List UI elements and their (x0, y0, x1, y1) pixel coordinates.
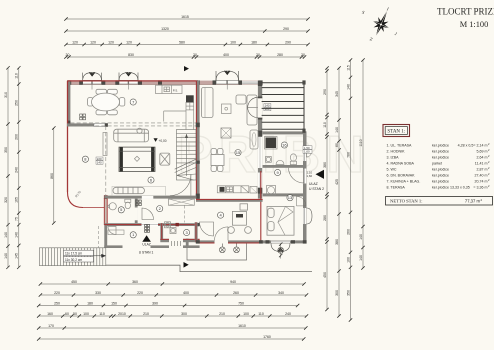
window opening W1 (83, 80, 92, 84)
svg-text:210: 210 (143, 312, 149, 316)
svg-text:100: 100 (243, 312, 249, 316)
svg-text:1320: 1320 (161, 27, 169, 31)
svg-text:1615: 1615 (181, 15, 189, 19)
red wall room3 south (160, 239, 199, 242)
opening stan2 east window (258, 173, 262, 188)
svg-text:120: 120 (126, 40, 132, 44)
svg-text:160: 160 (47, 312, 53, 316)
wall bath north (263, 131, 307, 134)
svg-text:580: 580 (179, 40, 185, 44)
room number 9 (275, 169, 281, 175)
door opening porch (169, 238, 183, 248)
wall pier pier W3 left (213, 80, 217, 84)
svg-text:165: 165 (15, 197, 19, 203)
svg-text:2,64 m: 2,64 m (477, 156, 488, 160)
svg-text:150: 150 (111, 301, 117, 305)
bed stan2 (267, 206, 294, 235)
svg-text:200: 200 (265, 107, 270, 111)
wall terrace divider (67, 123, 94, 126)
door arc room4 (199, 222, 213, 236)
dimension chain bottom row D (39, 315, 307, 317)
door opening entrance (142, 223, 159, 227)
svg-text:290: 290 (283, 27, 289, 31)
block terrace divider end (105, 123, 108, 127)
svg-text:3. IZBA: 3. IZBA (387, 156, 400, 160)
radiator stan2 (250, 130, 258, 149)
dimension chain bottom row C (39, 305, 298, 307)
svg-text:ker.pločice: ker.pločice (432, 150, 449, 154)
door arc under stairs (170, 175, 191, 196)
red wall hall left (104, 199, 107, 225)
entrance triangle stan1 (142, 235, 151, 242)
room number 13 (287, 195, 293, 201)
svg-text:830: 830 (128, 53, 134, 57)
svg-text:180: 180 (251, 40, 257, 44)
svg-text:310: 310 (4, 92, 8, 98)
svg-text:120: 120 (90, 40, 96, 44)
dining table stan1 (88, 89, 125, 115)
red boundary divider (195, 81, 197, 199)
door opening wc (135, 208, 138, 221)
marker arrow terrace (184, 262, 189, 268)
svg-text:140: 140 (359, 234, 363, 240)
wall top bottom edge (67, 83, 263, 85)
svg-text:100: 100 (346, 257, 350, 263)
terrace edge (106, 265, 312, 271)
svg-text:280: 280 (323, 215, 327, 221)
svg-text:140: 140 (15, 232, 19, 238)
svg-text:ker.pločice: ker.pločice (432, 144, 449, 148)
legend STAN 1 box (383, 125, 410, 137)
svg-text:1,60: 1,60 (304, 150, 310, 154)
wall pier pier kitchen (158, 80, 162, 84)
dashed beam line (70, 125, 196, 127)
svg-text:= 3,36 m: = 3,36 m (473, 186, 487, 190)
threshold marks entrance (145, 224, 150, 232)
entrance triangle stan2 (316, 170, 325, 179)
svg-text:16: 16 (282, 142, 287, 147)
svg-text:760: 760 (346, 152, 350, 158)
closet hall (169, 199, 195, 205)
svg-text:parket: parket (432, 162, 442, 166)
dimension chain top 1320/290 (66, 30, 308, 32)
dimension chain right chain 2 (338, 68, 340, 316)
svg-text:240: 240 (285, 312, 291, 316)
wall divider stan1-stan2 (196, 81, 200, 200)
dashed line hall (183, 206, 185, 223)
sofa stan2 (236, 95, 257, 125)
wall left exterior (67, 81, 70, 125)
wall pier pier divider top (196, 80, 200, 84)
svg-text:180: 180 (87, 301, 93, 305)
wall pier pier mid (102, 80, 106, 84)
window east bath (303, 150, 306, 161)
pergola east edge (303, 82, 305, 131)
svg-text:120: 120 (72, 40, 78, 44)
dining table stan2 (211, 149, 224, 172)
svg-text:TLOCRT PRIZEMLJA: TLOCRT PRIZEMLJA (437, 6, 494, 16)
room number 4 (218, 212, 224, 218)
svg-text:1610: 1610 (238, 324, 246, 328)
svg-text:1110: 1110 (359, 139, 363, 146)
red boundary room4 east (260, 171, 262, 243)
legend NETTO box (386, 197, 493, 206)
svg-text:ULAZ: ULAZ (309, 182, 318, 186)
svg-text:1. UL. TERASA: 1. UL. TERASA (387, 144, 413, 148)
kitchen counter stan1 (156, 85, 194, 129)
dimension chain bottom row A (40, 283, 304, 285)
svg-text:20: 20 (256, 53, 260, 57)
svg-text:ULAZ: ULAZ (142, 242, 150, 246)
svg-text:290: 290 (323, 89, 327, 95)
red wall entrance east (160, 223, 163, 239)
window terrace divider (94, 123, 105, 126)
svg-text:PRIBN: PRIBN (178, 126, 370, 184)
svg-text:400: 400 (223, 53, 229, 57)
svg-text:6. DN. BORAVAK: 6. DN. BORAVAK (387, 174, 416, 178)
svg-text:350: 350 (346, 290, 350, 296)
dishwasher stan2 (250, 187, 257, 194)
label boxes bath door (303, 146, 312, 154)
svg-text:940: 940 (230, 280, 236, 284)
svg-text:250: 250 (54, 301, 60, 305)
wall pier corner NE (259, 80, 263, 84)
svg-text:2. HODNIK: 2. HODNIK (387, 150, 406, 154)
wall south strip east2 (183, 245, 200, 248)
svg-text:1760: 1760 (263, 335, 271, 339)
east wall dark blocks (258, 81, 262, 194)
svg-text:13: 13 (288, 195, 293, 200)
svg-text:5. WC: 5. WC (387, 168, 397, 172)
door size labels 140/200 (264, 104, 271, 112)
svg-text:11x 17,5 cm: 11x 17,5 cm (65, 251, 82, 255)
svg-text:4. RADNA SOBA: 4. RADNA SOBA (387, 162, 415, 166)
dimension chain right chain 1 (326, 68, 328, 310)
svg-text:P.S.: P.S. (173, 89, 178, 93)
electric box wc (136, 200, 142, 206)
window shutters W2 (119, 73, 138, 81)
sofa stan1 top (114, 128, 149, 142)
svg-text:100: 100 (83, 312, 89, 316)
svg-text:300: 300 (335, 290, 339, 296)
wall pier pier mid2 (115, 80, 119, 84)
rug stan1 (112, 186, 166, 195)
red wall junction block (104, 195, 108, 199)
red wall room4 north (196, 199, 263, 202)
svg-text:ker.pločice: ker.pločice (432, 180, 449, 184)
svg-text:ker.pločice 13,33 x 0,35: ker.pločice 13,33 x 0,35 (432, 186, 470, 190)
dimension chain left inner (18, 68, 20, 267)
wall divider lower ext (195, 222, 198, 242)
svg-text:330: 330 (95, 291, 101, 295)
electric box symbol (80, 114, 86, 120)
svg-text:20: 20 (193, 53, 197, 57)
washer dryer room3 (165, 222, 177, 234)
pergola bars (262, 83, 304, 129)
svg-text:250: 250 (15, 100, 19, 106)
svg-text:320: 320 (4, 197, 8, 203)
room number 15 (235, 150, 241, 156)
svg-text:STAN 1:: STAN 1: (387, 130, 405, 135)
wall hall west lower (104, 226, 107, 248)
dashed wall line vertical (105, 126, 107, 196)
dimension chain right chain 4 (362, 60, 364, 268)
room number 16 (281, 142, 287, 148)
door opening living south (142, 195, 154, 199)
boiler hall9 (267, 186, 276, 196)
dimension chain left 860 (53, 128, 55, 223)
wall pier pier W2 right (138, 80, 142, 84)
wall stan2 east (258, 81, 262, 199)
shelf on open wall (103, 133, 107, 156)
fixed glazing top (242, 81, 258, 84)
svg-text:20,74 m: 20,74 m (475, 180, 488, 184)
svg-text:860: 860 (50, 173, 54, 179)
svg-text:240: 240 (15, 167, 19, 173)
dimension chain left outer (7, 68, 9, 267)
room number 2 (157, 206, 163, 212)
window shutters W1 (83, 73, 102, 81)
island table stan1 (119, 147, 155, 171)
dimension chain top windows 120s (66, 44, 308, 46)
svg-text:11x 30,2 cm: 11x 30,2 cm (65, 258, 82, 262)
window bedroom south (271, 241, 290, 243)
svg-text:NETTO STAN 1:: NETTO STAN 1: (390, 199, 422, 204)
dimension chain top 20/830/400/280 (66, 56, 305, 58)
porch outline (187, 243, 247, 260)
wall corner blocks south (196, 240, 307, 243)
svg-text:145: 145 (15, 253, 19, 259)
armchair stan1 (160, 153, 170, 165)
dimension chain top total 1615 (66, 18, 308, 20)
svg-text:210: 210 (219, 312, 225, 316)
svg-text:50: 50 (73, 312, 77, 316)
legend room rows (387, 142, 491, 189)
svg-text:110: 110 (99, 312, 105, 316)
window opening W3 (216, 80, 227, 84)
internal stairs (175, 130, 196, 181)
fireplace stan2 (221, 128, 231, 138)
svg-text:140: 140 (359, 255, 363, 261)
sideboard stan1 (113, 187, 144, 193)
bath sink toilet (266, 154, 297, 165)
marker arrow top (184, 66, 189, 71)
svg-text:140: 140 (346, 84, 350, 90)
sofa stan2 west (202, 88, 214, 118)
door arc room4 south (215, 227, 229, 241)
room number 5 (118, 207, 124, 213)
svg-text:345: 345 (335, 91, 339, 97)
level marker +0,00 (154, 138, 158, 142)
svg-text:360: 360 (132, 280, 138, 284)
svg-text:100: 100 (230, 40, 236, 44)
svg-text:115: 115 (346, 65, 350, 71)
wall pier pier W3 right (239, 80, 243, 84)
wall south strip west (104, 245, 122, 248)
porch columns room4 (219, 244, 283, 254)
red boundary arc R175 (68, 192, 84, 208)
wc fixtures room5 (107, 199, 131, 210)
room number 8 (82, 156, 88, 162)
desk room4 (228, 204, 252, 234)
svg-text:15: 15 (236, 150, 241, 155)
svg-text:5,69 m: 5,69 m (477, 150, 488, 154)
svg-text:11,41 m: 11,41 m (475, 162, 488, 166)
door arc hall9 (289, 168, 304, 183)
wall living south (104, 196, 196, 199)
svg-text:60: 60 (65, 312, 69, 316)
north compass star (366, 6, 398, 41)
window opening W2 (119, 80, 128, 84)
svg-text:280: 280 (277, 53, 283, 57)
red wall hall south east part (162, 223, 199, 226)
svg-text:450: 450 (323, 272, 327, 278)
cupboard room1 (108, 230, 124, 235)
window shutters bedroom (271, 243, 290, 251)
dimension chain right chain 3 (350, 60, 352, 320)
door size labels terrace (96, 157, 103, 165)
dimension chain bottom row E (39, 327, 306, 329)
wall south strip east (151, 245, 170, 248)
window east bedroom (303, 208, 306, 224)
svg-text:110: 110 (258, 312, 264, 316)
wall east exterior (303, 131, 307, 243)
svg-text:120: 120 (108, 40, 114, 44)
opening east hall9 entrance (303, 169, 306, 184)
red wall room4 south (196, 240, 263, 243)
wall left lower pier (67, 121, 70, 126)
svg-text:220: 220 (137, 291, 143, 295)
svg-text:1,60: 1,60 (307, 174, 313, 178)
svg-text:380: 380 (323, 162, 327, 168)
svg-text:2010: 2010 (118, 312, 126, 316)
dimension chain bottom row B (40, 294, 306, 296)
divider dark blocks (196, 123, 200, 199)
svg-text:340: 340 (278, 291, 284, 295)
svg-text:U STAN 2: U STAN 2 (309, 187, 324, 191)
svg-text:140: 140 (335, 127, 339, 133)
svg-text:ker.pločice: ker.pločice (432, 156, 449, 160)
svg-text:4,28 x 0,5= 2,14 m: 4,28 x 0,5= 2,14 m (458, 144, 488, 148)
svg-text:ker.pločice: ker.pločice (432, 174, 449, 178)
french door arcs (248, 97, 258, 117)
room number 3 (184, 229, 190, 235)
svg-text:ker.pločice: ker.pločice (432, 168, 449, 172)
svg-text:140: 140 (4, 253, 8, 259)
svg-text:M 1:100: M 1:100 (460, 20, 489, 29)
wall bedroom north (263, 193, 307, 196)
svg-text:U STAN 1: U STAN 1 (139, 251, 154, 255)
red boundary left (67, 81, 69, 192)
external steps (39, 248, 105, 266)
wall pier corner NW (67, 80, 71, 84)
door opening room4 south (215, 240, 229, 244)
svg-text:300: 300 (181, 312, 187, 316)
window shutters W3 (216, 71, 239, 81)
wall bath south (263, 165, 307, 168)
dimension chain bottom row F (39, 338, 304, 340)
svg-text:750: 750 (238, 301, 244, 305)
svg-text:27,40 m: 27,40 m (475, 174, 488, 178)
svg-text:220: 220 (54, 291, 60, 295)
room number 1 (130, 232, 136, 238)
kitchen counter stan2 (217, 186, 249, 193)
svg-text:75: 75 (15, 217, 19, 221)
svg-text:170: 170 (48, 324, 54, 328)
washbasin room1 (108, 227, 116, 235)
table lamp stan2 (222, 104, 232, 114)
svg-text:60: 60 (335, 143, 339, 147)
door arc bedroom (297, 196, 307, 206)
svg-text:7. KUHINJA + BLAG.: 7. KUHINJA + BLAG. (387, 180, 421, 184)
dim line bedroom window (280, 244, 282, 259)
red wall hall south (104, 223, 162, 226)
door arc room2 (142, 208, 154, 220)
svg-text:290: 290 (285, 40, 291, 44)
svg-text:200: 200 (15, 134, 19, 140)
opening stan2 east door2 (258, 137, 262, 168)
wall wc east (135, 199, 138, 224)
wall bedroom south (263, 240, 307, 243)
red boundary top (67, 80, 198, 82)
svg-text:2,87 m: 2,87 m (477, 168, 488, 172)
svg-text:390: 390 (152, 301, 158, 305)
svg-text:400: 400 (183, 291, 189, 295)
wall pier pier W1 left (79, 80, 83, 84)
svg-text:450: 450 (71, 280, 77, 284)
svg-text:425: 425 (335, 179, 339, 185)
shower stan2 (266, 138, 277, 149)
svg-text:8. TERASA: 8. TERASA (387, 186, 406, 190)
svg-text:380: 380 (335, 239, 339, 245)
svg-text:20: 20 (301, 53, 305, 57)
svg-text:110: 110 (323, 122, 327, 128)
opening stan2 french door (258, 97, 262, 117)
svg-text:77,37 m: 77,37 m (465, 199, 481, 204)
dashed line above steps (97, 226, 99, 248)
svg-text:+0,00: +0,00 (159, 139, 167, 143)
wall top exterior (67, 81, 263, 85)
svg-text:350: 350 (4, 147, 8, 153)
door arc east bath (307, 148, 312, 158)
wall room3 east (186, 239, 189, 248)
svg-text:260: 260 (233, 291, 239, 295)
red boundary bottom terrace (83, 207, 104, 209)
steps labels (64, 250, 94, 262)
svg-text:110: 110 (15, 73, 19, 79)
svg-text:140: 140 (97, 161, 102, 165)
room number 6 (148, 177, 154, 183)
svg-text:20: 20 (66, 53, 70, 57)
room number 7 (130, 99, 136, 105)
svg-text:140: 140 (4, 232, 8, 238)
svg-text:260: 260 (346, 229, 350, 235)
